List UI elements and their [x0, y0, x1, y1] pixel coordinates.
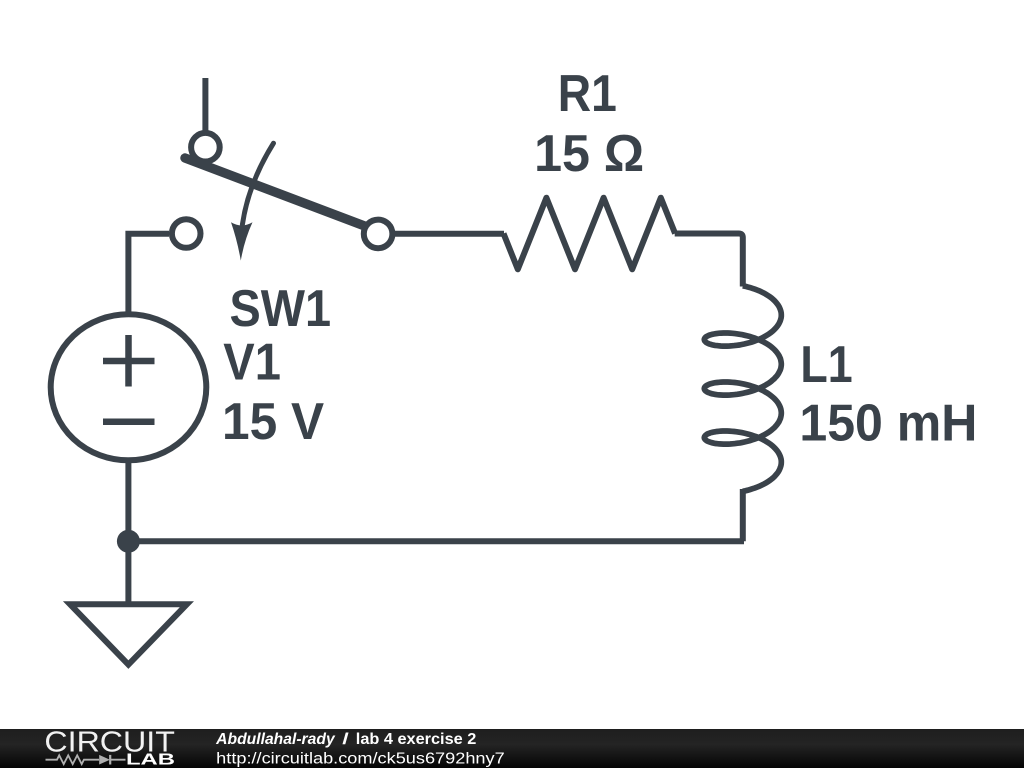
svg-text:lab 4 exercise 2: lab 4 exercise 2	[356, 731, 477, 748]
svg-text:LAB: LAB	[126, 752, 175, 768]
svg-text:L1: L1	[800, 336, 852, 394]
switch SW1 actuation arrow	[242, 143, 273, 224]
V1 minus sign	[103, 419, 155, 426]
CircuitLab logo: resistor + diode squiggle	[46, 755, 126, 764]
V1 plus sign	[103, 358, 155, 365]
wire: SW1 right terminal to R1	[394, 231, 504, 237]
switch SW1 terminal pin 2 (left)	[172, 219, 201, 248]
wire: V1 - to ground node	[125, 462, 131, 541]
switch SW1 terminal pin 3 (right)	[364, 220, 393, 249]
switch SW1	[172, 133, 393, 261]
svg-text:V1: V1	[223, 333, 281, 391]
svg-text:15 V: 15 V	[222, 393, 324, 451]
wire: L1 to bottom rail	[740, 489, 746, 541]
svg-text:15 Ω: 15 Ω	[534, 125, 644, 183]
switch SW1 blade	[185, 158, 366, 227]
svg-text:http://circuitlab.com/ck5us679: http://circuitlab.com/ck5us6792hny7	[216, 750, 505, 767]
svg-text:Abdullahal-rady: Abdullahal-rady	[215, 731, 336, 748]
wire: SW1 top pin stub	[202, 78, 208, 134]
svg-text:R1: R1	[558, 65, 617, 123]
svg-text:/: /	[342, 731, 350, 748]
voltage source V1	[51, 314, 207, 460]
wire: bottom rail (node to L1)	[128, 538, 744, 544]
ground	[70, 604, 187, 664]
footer bar	[0, 729, 1024, 768]
svg-text:150 mH: 150 mH	[799, 394, 977, 452]
switch SW1 terminal pin 1 (top)	[191, 133, 220, 162]
wire: SW1 left terminal to V1 +	[128, 234, 169, 314]
inductor L1	[704, 286, 781, 492]
junction node (V1- / ground / bottom rail)	[117, 530, 140, 553]
wire: node to ground symbol	[125, 541, 131, 602]
wire: R1 to L1 (top right corner)	[675, 234, 743, 287]
svg-text:SW1: SW1	[230, 280, 332, 338]
resistor R1	[504, 198, 676, 270]
